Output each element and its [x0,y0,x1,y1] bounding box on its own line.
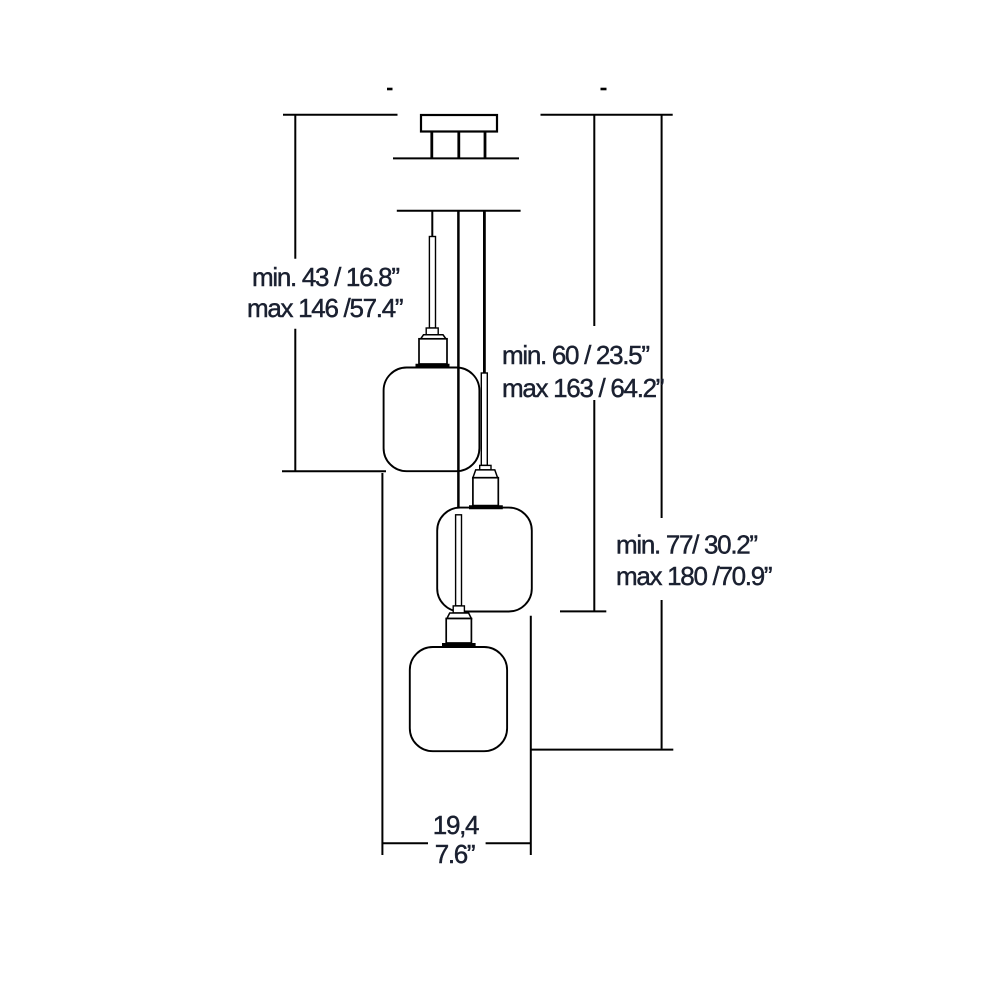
socket flare pendant 3 [447,613,472,619]
svg-text:max 163 / 64.2”: max 163 / 64.2” [502,373,664,403]
label 7.6 inch [435,839,475,869]
cord pendant 1 [431,211,433,237]
width dimension line left segment [382,842,428,844]
glass shade 2 (right pendant) [437,508,532,612]
svg-text:max 146 /57.4”: max 146 /57.4” [247,293,403,323]
svg-text:min. 77/ 30.2”: min. 77/ 30.2” [616,530,757,560]
ceiling line lower [397,210,521,212]
svg-text:min. 43 / 16.8”: min. 43 / 16.8” [252,262,399,292]
top extension line right segment [541,114,673,116]
svg-text:19,4: 19,4 [433,810,479,840]
label min 60 / 23.5 [502,340,649,370]
connector pendant 1 [426,328,438,335]
glass shade 3 (bottom pendant) [410,647,507,751]
connector pendant 3 [453,606,464,613]
socket body pendant 1 [419,339,447,364]
svg-text:min. 60 / 23.5”: min. 60 / 23.5” [502,340,649,370]
dimension line middle bottom tick [560,610,606,612]
neck bar pendant 2 [469,505,503,509]
rod pendant 3 [456,515,462,606]
dimension line middle (min 60 / max 163) upper segment [593,115,595,326]
ceiling line upper [393,157,519,159]
label max 146 / 57.4 [247,293,403,323]
socket flare pendant 2 [473,470,498,478]
dimension line left bottom tick [282,470,386,472]
canopy plate [421,115,497,132]
label max 180 / 70.9 [616,561,772,591]
width extent line right [530,616,532,855]
svg-text:max 180 /70.9”: max 180 /70.9” [616,561,772,591]
label min 43 / 16.8 [252,262,399,292]
dimension line right lower segment [661,600,663,749]
top-left stray dash [387,88,393,91]
cord pendant 3 (middle) [457,211,460,515]
cord pendant 2 (rightmost, thick) [483,211,486,373]
glass shade 1 (top pendant) [384,368,480,472]
label min 77 / 30.2 [616,530,757,560]
dimension line right (min 77 / max 180) upper segment [661,115,663,518]
dimension line left lower segment [294,329,296,472]
connector pendant 2 [480,465,491,470]
top-right stray dash [601,88,607,91]
width dimension line right segment [486,842,531,844]
neck bar pendant 1 [416,364,450,368]
width extent line left [381,473,383,855]
rod pendant 2 [481,373,487,465]
rod pendant 1 [429,237,435,329]
socket body pendant 2 [473,478,498,506]
neck bar pendant 3 [442,643,476,647]
canopy post right [484,132,487,159]
canopy post left [430,132,433,159]
label 19,4 [433,810,479,840]
socket body pendant 3 [446,619,471,644]
dimension line left (min 43 / max 146) upper segment [294,115,296,259]
dimension line right bottom tick [531,749,673,751]
svg-text:7.6”: 7.6” [435,839,475,869]
label max 163 / 64.2 [502,373,664,403]
socket flare pendant 1 [421,335,446,339]
canopy post middle [457,132,460,159]
top extension line left segment [283,114,398,116]
dimension line middle lower segment [593,400,595,611]
